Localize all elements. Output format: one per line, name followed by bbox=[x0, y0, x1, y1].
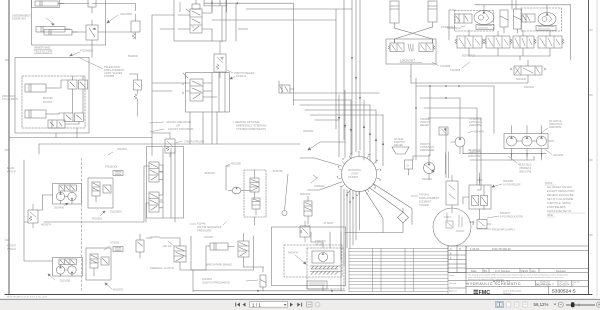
svg-text:FROM AIR SUPPLY: FROM AIR SUPPLY bbox=[492, 228, 516, 232]
tank pump circle bbox=[319, 253, 328, 262]
node dots right bbox=[429, 85, 431, 87]
svg-text:RELIEF: RELIEF bbox=[394, 143, 403, 147]
svg-text:PORT RELIEFS: PORT RELIEFS bbox=[547, 205, 566, 209]
sol valve 4 bbox=[538, 36, 562, 48]
svg-text:53J0280A: 53J0280A bbox=[110, 210, 122, 214]
brake cb square bbox=[103, 185, 111, 193]
divider above toolbar bbox=[0, 299, 600, 300]
priority valve below bbox=[514, 66, 542, 75]
bus horizontal 2 bbox=[39, 143, 300, 145]
btn next page bbox=[290, 303, 293, 307]
svg-text:2900 RPM: 2900 RPM bbox=[469, 123, 481, 127]
wire air top bus bbox=[445, 154, 447, 178]
telescope cylinder 2 bbox=[44, 30, 72, 36]
svg-text:3855 KPM: 3855 KPM bbox=[519, 170, 531, 174]
pump c1 bbox=[507, 136, 517, 146]
valve outer box bbox=[174, 0, 226, 41]
air tank inner valve bbox=[446, 221, 453, 228]
border zone ticks bbox=[5, 30, 593, 240]
lockout wires bbox=[395, 39, 433, 76]
svg-text:45J0286: 45J0286 bbox=[231, 162, 242, 166]
lockout valve left bbox=[390, 43, 404, 52]
svg-text:4T20065: 4T20065 bbox=[104, 74, 115, 78]
leader arrow label bbox=[46, 18, 54, 25]
svg-text:8.530064(H): 8.530064(H) bbox=[441, 25, 456, 29]
svg-text:2900 RPM: 2900 RPM bbox=[549, 125, 561, 129]
svg-text:55J0456: 55J0456 bbox=[54, 206, 65, 210]
svg-text:1-15-93: 1-15-93 bbox=[470, 247, 479, 251]
svg-text:ROTATING: ROTATING bbox=[348, 168, 361, 172]
title row divider bbox=[466, 281, 589, 295]
brake valve bbox=[92, 182, 100, 196]
wires from left to bundle bbox=[230, 0, 352, 140]
accumulator 2 bbox=[514, 9, 522, 29]
svg-text:Revision: Revision bbox=[556, 269, 567, 273]
wire telescope to relief bbox=[72, 31, 131, 33]
air tank circle bbox=[433, 208, 471, 246]
bus horizontal 1 bbox=[9, 137, 152, 139]
border bottom bbox=[5, 294, 592, 296]
tank wires bbox=[311, 232, 341, 260]
btn next view bbox=[315, 302, 320, 307]
fan lines bbox=[339, 90, 383, 166]
front brake valve bbox=[90, 254, 98, 268]
svg-text:Approved: Approved bbox=[449, 290, 457, 293]
swing element box bbox=[446, 181, 458, 205]
wires near pump bbox=[409, 155, 430, 180]
rear motor circle 1 bbox=[56, 192, 64, 200]
svg-text:THROTTLE. SWING: THROTTLE. SWING bbox=[547, 201, 571, 205]
svg-text:5200M (40'): 5200M (40') bbox=[12, 17, 26, 21]
svg-text:HYDRAULIC SCHEMATIC: HYDRAULIC SCHEMATIC bbox=[467, 282, 522, 286]
diamond wires bbox=[345, 208, 403, 233]
enclosing box bbox=[147, 147, 184, 219]
svg-text:OR: OR bbox=[176, 124, 180, 128]
svg-text:45J2016: 45J2016 bbox=[117, 147, 128, 151]
leader to valve bbox=[78, 57, 103, 69]
border right outer faint bbox=[596, 0, 598, 296]
swivel valve 1 bbox=[250, 178, 259, 192]
svg-text:Date: Date bbox=[471, 269, 477, 273]
rear winch motor box bbox=[53, 184, 82, 205]
svg-text:FMC: FMC bbox=[479, 290, 491, 296]
accumulator 1 bbox=[500, 10, 508, 27]
viewer toolbar bbox=[0, 299, 600, 310]
steer supply valve B bbox=[522, 14, 535, 22]
svg-text:55J0246: 55J0246 bbox=[516, 77, 527, 81]
boom wiring bbox=[51, 80, 83, 124]
node dot bottom bbox=[257, 290, 259, 292]
view icon single page highlighted bbox=[496, 301, 504, 307]
tank outer box bbox=[307, 248, 344, 289]
trapezoid 40J443 bbox=[392, 147, 409, 154]
pump B case box bbox=[536, 26, 556, 31]
svg-text:4TL0509: 4TL0509 bbox=[440, 64, 451, 68]
svg-text:.100 1/2: .100 1/2 bbox=[162, 244, 172, 248]
relief right of telescope bbox=[131, 21, 140, 32]
strainer box2 bbox=[310, 272, 341, 275]
view icon 4 bbox=[523, 302, 527, 307]
front brake group bbox=[86, 248, 111, 280]
border right bbox=[588, 0, 590, 295]
svg-text:8530067(2): 8530067(2) bbox=[462, 54, 475, 58]
sol valve 3 bbox=[513, 36, 534, 48]
svg-text:56J0253: 56J0253 bbox=[238, 27, 249, 31]
boom cylinder 2 bbox=[25, 110, 46, 118]
svg-text:1500 PSI: 1500 PSI bbox=[315, 239, 326, 243]
svg-text:ELEMENT: ELEMENT bbox=[419, 200, 432, 204]
svg-text:D: D bbox=[459, 247, 461, 251]
rotating joint circle bbox=[342, 157, 377, 192]
check sym bbox=[311, 175, 318, 183]
center vertical line bundle bbox=[352, 0, 360, 155]
slider tick bbox=[578, 304, 580, 306]
lockout valve right bbox=[419, 43, 433, 52]
svg-text:56,12%: 56,12% bbox=[534, 302, 549, 307]
legal row bbox=[466, 280, 589, 282]
wires descending center-left bbox=[152, 112, 203, 144]
svg-text:40J0553: 40J0553 bbox=[92, 217, 103, 221]
pump group A dashed box bbox=[455, 11, 494, 32]
svg-text:B: B bbox=[182, 91, 184, 95]
svg-text:WINCH: WINCH bbox=[7, 170, 16, 174]
SECTION title block bbox=[448, 246, 589, 295]
svg-text:41J446: 41J446 bbox=[197, 222, 206, 226]
svg-text:44J2155N: 44J2155N bbox=[120, 12, 132, 16]
pump B ellipse bbox=[538, 13, 556, 26]
pilot valve above telescope bbox=[88, 0, 96, 7]
svg-text:- 56J0756: - 56J0756 bbox=[271, 169, 283, 173]
box under label bbox=[113, 171, 123, 176]
steer supply valve A bbox=[455, 14, 472, 23]
node dot bbox=[236, 2, 238, 4]
relief valve below bbox=[214, 54, 226, 72]
valve spool bbox=[190, 79, 203, 101]
main spool valve bbox=[190, 9, 202, 33]
svg-text:53J0002: 53J0002 bbox=[128, 54, 139, 58]
svg-text:DISPLACEMENT: DISPLACEMENT bbox=[419, 196, 440, 200]
svg-text:962-PR-634- 7: 962-PR-634- 7 bbox=[536, 283, 554, 287]
boom hoist inner box bbox=[22, 76, 85, 128]
btn last page bbox=[297, 303, 302, 307]
steer cylinder right bbox=[428, 1, 437, 22]
zoom out icon bbox=[558, 302, 563, 307]
filter LP sym 2 bbox=[481, 196, 488, 206]
svg-text:46J208: 46J208 bbox=[204, 235, 213, 239]
svg-text:55J0108: 55J0108 bbox=[60, 279, 71, 283]
svg-text:App.: App. bbox=[531, 269, 537, 273]
svg-text:56J4516: 56J4516 bbox=[202, 277, 213, 281]
slider track bbox=[566, 304, 595, 306]
relief valve lower left bbox=[165, 139, 175, 153]
svg-text:97815(3D): 97815(3D) bbox=[105, 165, 117, 169]
front motor circle 2 bbox=[68, 266, 76, 274]
svg-text:FRONT: FRONT bbox=[7, 244, 16, 248]
sol valve 1 bbox=[457, 36, 482, 48]
btn prev view bbox=[307, 302, 313, 307]
crossing wires bbox=[395, 27, 433, 43]
rim ticks bbox=[339, 154, 380, 195]
bus vertical from boom bbox=[56, 128, 77, 138]
tank bottom box bbox=[307, 281, 327, 289]
wires top center bbox=[204, 0, 293, 105]
border left bbox=[8, 0, 10, 295]
wire right bus down bbox=[533, 156, 535, 160]
small reg valve bbox=[477, 220, 487, 229]
D box bbox=[405, 160, 413, 169]
svg-text:2750 PSI RELIEF: 2750 PSI RELIEF bbox=[184, 140, 205, 144]
rear winch wiring bbox=[38, 191, 73, 210]
box under G70020 bbox=[113, 247, 123, 252]
svg-text:55J0133: 55J0133 bbox=[300, 192, 311, 196]
pump A ellipse bbox=[474, 11, 494, 25]
steer cylinder left bbox=[390, 1, 399, 23]
wire bbox=[320, 141, 345, 143]
rev table columns bbox=[349, 246, 448, 295]
svg-text:C.O. Number: C.O. Number bbox=[495, 269, 510, 273]
svg-text:RELIEF: RELIEF bbox=[420, 123, 429, 127]
boom CB valve pair lower bbox=[64, 113, 73, 122]
svg-text:D=28374: D=28374 bbox=[560, 284, 570, 287]
svg-text:- 4TJ0237: - 4TJ0237 bbox=[322, 221, 334, 225]
svg-text:RELIEFS SHOULD BE: RELIEFS SHOULD BE bbox=[547, 193, 574, 197]
left bus vertical bbox=[24, 160, 53, 261]
svg-text:5330524 S: 5330524 S bbox=[552, 289, 576, 295]
header row bbox=[466, 269, 589, 273]
svg-text:REAR: REAR bbox=[7, 166, 14, 170]
wire pump verticals down bbox=[463, 146, 546, 160]
svg-text:PRESSURE: PRESSURE bbox=[420, 148, 435, 152]
arrow lower-left bbox=[308, 142, 320, 150]
bus box lower left bbox=[39, 15, 152, 156]
page box bbox=[250, 302, 288, 308]
left col boxes bbox=[448, 273, 466, 295]
boom hoist outer box bbox=[15, 58, 89, 134]
right vertical feed bbox=[416, 78, 494, 190]
park brake enclosure bbox=[191, 236, 254, 270]
toolbar background bbox=[0, 300, 600, 310]
FMC logo bbox=[474, 290, 491, 296]
diamond filter bbox=[398, 212, 409, 223]
svg-text:C: C bbox=[450, 247, 452, 251]
plus mark bbox=[477, 178, 482, 183]
wires valve left to bus bbox=[152, 83, 186, 91]
svg-text:SYSTEM COMPONENTS: SYSTEM COMPONENTS bbox=[236, 127, 266, 131]
pump A case box bbox=[476, 25, 494, 30]
svg-text:4BJ0715(2): 4BJ0715(2) bbox=[518, 163, 532, 167]
svg-text:Checked: Checked bbox=[449, 283, 456, 285]
svg-text:4T20066(2): 4T20066(2) bbox=[80, 49, 94, 53]
single pump left bbox=[455, 137, 465, 147]
svg-text:4SJ0141: 4SJ0141 bbox=[236, 74, 247, 78]
wire telescope top bbox=[59, 4, 136, 11]
sol valve upper bbox=[149, 162, 159, 182]
svg-text:46J4183: 46J4183 bbox=[553, 153, 564, 157]
svg-text:E: E bbox=[450, 251, 452, 255]
wires from sol valves bbox=[44, 166, 149, 222]
filter LP sym 1 bbox=[472, 196, 479, 206]
zoom in icon cut bbox=[596, 302, 600, 307]
lockout spring mid bbox=[408, 44, 413, 51]
btn first page bbox=[235, 303, 240, 307]
svg-text:55J0255: 55J0255 bbox=[178, 1, 182, 12]
top supply wire bbox=[475, 0, 571, 60]
small valve below bbox=[304, 201, 312, 216]
swivel wires bbox=[226, 166, 255, 225]
swivel dashed box bbox=[244, 170, 266, 217]
svg-text:74J0350: 74J0350 bbox=[419, 203, 430, 207]
wires to left bbox=[152, 15, 174, 29]
front winch motor box bbox=[53, 258, 83, 277]
svg-text:74J0341: 74J0341 bbox=[419, 193, 430, 197]
svg-text:53J0232: 53J0232 bbox=[524, 85, 535, 89]
front winch wiring bbox=[61, 265, 73, 277]
svg-text:U8509M &: U8509M & bbox=[519, 166, 532, 170]
svg-text:200 PSI SEQUENCE: 200 PSI SEQUENCE bbox=[197, 225, 222, 229]
svg-text:LOCKOUT: LOCKOUT bbox=[400, 59, 415, 63]
lockout box bbox=[386, 39, 436, 64]
strainer comb bbox=[310, 266, 341, 269]
accumulator park bbox=[260, 275, 266, 287]
pump trio wires up bbox=[512, 126, 542, 157]
svg-text:- 45J0245 -: - 45J0245 - bbox=[203, 171, 216, 175]
svg-text:NOTE:: NOTE: bbox=[545, 181, 553, 185]
rim outer dots bbox=[337, 151, 381, 196]
svg-text:FREEFALL CLUTCH: FREEFALL CLUTCH bbox=[150, 266, 174, 270]
relief valve above tank bbox=[300, 226, 310, 237]
legal fine print bbox=[468, 274, 568, 282]
svg-text:56J0007: 56J0007 bbox=[500, 211, 511, 215]
svg-text:4TR0422: 4TR0422 bbox=[314, 184, 325, 188]
telescope outer box bbox=[32, 0, 106, 45]
svg-text:45J0383: 45J0383 bbox=[303, 129, 314, 133]
svg-text:☆ REMOTE OPTIONAL: ☆ REMOTE OPTIONAL bbox=[232, 120, 261, 124]
sol valve lower bbox=[149, 192, 159, 212]
pump left wires bbox=[446, 123, 460, 154]
left feed valve bbox=[28, 210, 38, 223]
clutch wires bbox=[160, 238, 206, 270]
swivel valve 2 bbox=[252, 198, 260, 209]
svg-text:53J0224: 53J0224 bbox=[422, 177, 433, 181]
boom CB valve pair upper bbox=[68, 80, 77, 89]
pump 53J0224 bbox=[424, 163, 435, 174]
svg-text:D: D bbox=[573, 284, 575, 287]
svg-text:ADJUST TWO DRUM: ADJUST TWO DRUM bbox=[168, 127, 193, 131]
swivel ellipse bbox=[232, 187, 241, 193]
btn prev page bbox=[243, 303, 246, 307]
slider handle bbox=[571, 302, 574, 307]
front cb square bbox=[101, 257, 109, 265]
front motor circle 1 bbox=[56, 266, 64, 274]
svg-text:P-93-TP-262-20: P-93-TP-262-20 bbox=[492, 247, 511, 251]
joint lines bottom right diagonal bbox=[365, 184, 412, 233]
svg-text:ADJUST ONE DRUM: ADJUST ONE DRUM bbox=[166, 120, 191, 124]
valve solenoid cap bbox=[192, 4, 200, 9]
air wires bbox=[463, 173, 480, 204]
counterbalance valve telescope bbox=[86, 25, 98, 40]
svg-text:SET AT FULL ENGINE: SET AT FULL ENGINE bbox=[547, 197, 574, 201]
svg-text:G70020: G70020 bbox=[110, 241, 120, 245]
svg-text:TELESCOPE: TELESCOPE bbox=[34, 50, 53, 54]
valve ports bbox=[178, 0, 230, 41]
pump group B dashed box bbox=[521, 8, 562, 31]
svg-text:46J0553: 46J0553 bbox=[113, 288, 124, 292]
svg-text:2000 PSI PRECHARGE: 2000 PSI PRECHARGE bbox=[202, 281, 230, 285]
svg-text:44J0434: 44J0434 bbox=[288, 251, 299, 255]
top rev row bbox=[466, 246, 589, 273]
right small comp heat exch bbox=[136, 240, 144, 252]
tank big outer box bbox=[272, 227, 346, 286]
svg-text:Division: Division bbox=[503, 293, 511, 295]
svg-text:46J0574: 46J0574 bbox=[41, 223, 52, 227]
svg-text:EMERGENCY STEERING: EMERGENCY STEERING bbox=[236, 124, 267, 128]
svg-text:6 PSI REGULATOR: 6 PSI REGULATOR bbox=[500, 215, 523, 219]
rear winch valve top bbox=[59, 185, 77, 191]
pump c3 bbox=[537, 136, 547, 146]
svg-text:2000 RPM: 2000 RPM bbox=[469, 150, 481, 154]
svg-text:ALL RELIEF VALVES: ALL RELIEF VALVES bbox=[547, 185, 572, 189]
rev table rows bbox=[349, 246, 448, 295]
rear motor circle 2 bbox=[68, 192, 76, 200]
bundle arrowheads bbox=[351, 57, 361, 100]
small valve right bbox=[279, 85, 290, 93]
tank pump box bbox=[312, 251, 334, 263]
caret bbox=[554, 304, 557, 306]
svg-text:EXCEPT SWING PORT: EXCEPT SWING PORT bbox=[547, 189, 575, 193]
view icon 3 bbox=[515, 302, 519, 307]
relief sym 74J0280 bbox=[439, 127, 448, 135]
cylinder top small bbox=[35, 1, 58, 6]
svg-text:4TL0308: 4TL0308 bbox=[450, 68, 461, 72]
front winch valve top bbox=[59, 259, 77, 265]
svg-text:2000 RPM: 2000 RPM bbox=[468, 154, 480, 158]
joint radiating lines bottom bbox=[341, 187, 360, 291]
telescope cylinder 1 bbox=[36, 27, 65, 33]
horizontal feeds into fan bbox=[290, 93, 383, 120]
svg-text:JOINT: JOINT bbox=[351, 172, 359, 176]
telescope upper cyl box bbox=[32, 0, 60, 8]
pump c2 bbox=[522, 136, 532, 146]
arrow label bbox=[168, 241, 174, 246]
feed verticals bbox=[159, 148, 175, 222]
svg-text:10 PSI RELIEF: 10 PSI RELIEF bbox=[503, 183, 521, 187]
svg-text:SHOULD BE SET AT: SHOULD BE SET AT bbox=[547, 209, 572, 213]
svg-text:WINCH PARK BRAKE: WINCH PARK BRAKE bbox=[206, 263, 232, 267]
fan arrowheads bbox=[338, 117, 384, 145]
pump shafts bbox=[517, 140, 555, 142]
valve ports wires bbox=[183, 73, 225, 145]
svg-text:46J0516: 46J0516 bbox=[150, 235, 161, 239]
svg-text:CYL(2)-BM(T): CYL(2)-BM(T) bbox=[2, 97, 18, 101]
svg-text:Drawn: Drawn bbox=[449, 275, 454, 277]
boom cylinder 1 bbox=[25, 84, 46, 92]
brake cylinder bbox=[210, 243, 228, 250]
joint radiating lines left bbox=[300, 158, 342, 190]
svg-text:PRESSURE: PRESSURE bbox=[197, 229, 212, 233]
svg-text:46J4295: 46J4295 bbox=[503, 179, 514, 183]
rear winch brake group bbox=[88, 178, 113, 208]
svg-text:4SJ0254: 4SJ0254 bbox=[348, 175, 359, 179]
valve outer box bbox=[186, 73, 230, 113]
view icon 2 bbox=[507, 302, 511, 307]
svg-text:45J4470: 45J4470 bbox=[474, 130, 485, 134]
svg-text:REVN: REVN bbox=[521, 269, 528, 273]
park wires bbox=[193, 246, 345, 292]
section divider dashed bbox=[81, 158, 83, 292]
valve row wiring bbox=[469, 30, 550, 56]
wire lockout to bus bbox=[410, 76, 412, 83]
pressure valve right column bbox=[134, 80, 142, 90]
